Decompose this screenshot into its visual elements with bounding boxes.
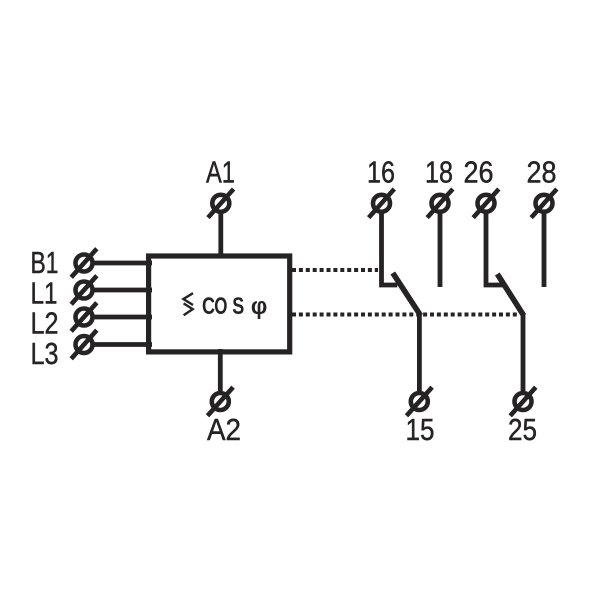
terminal 28 [531, 189, 557, 218]
terminal 16 [369, 189, 395, 218]
wire B1 to box [94, 261, 153, 266]
dotted control link lower [292, 313, 520, 317]
terminal 26 [473, 189, 499, 218]
relay box U1 [149, 256, 290, 352]
terminal A2 [208, 387, 234, 416]
svg-text:φ: φ [251, 293, 267, 320]
terminal L2 [71, 303, 97, 332]
wire 18 open contact [438, 213, 443, 287]
switch lever S1 [393, 273, 421, 316]
terminal L3 [71, 330, 97, 359]
wire L3 to box [94, 342, 153, 347]
svg-text:L3: L3 [31, 336, 59, 371]
svg-text:O: O [214, 293, 227, 320]
wire common 15 [417, 313, 422, 393]
svg-text:15: 15 [406, 412, 435, 447]
wire A2 from box [218, 349, 223, 393]
svg-text:25: 25 [508, 412, 537, 447]
terminal A1 [208, 189, 234, 218]
terminal L1 [71, 276, 97, 305]
svg-text:S: S [232, 293, 244, 320]
switch lever S2 [497, 274, 523, 316]
svg-text:A2: A2 [207, 412, 241, 447]
wire 26 fixed contact [486, 213, 504, 285]
wire 16 fixed contact [382, 213, 398, 285]
wire 28 open contact [542, 213, 547, 287]
wire common 25 [521, 313, 526, 393]
terminal 25 [510, 387, 536, 416]
terminal 18 [427, 189, 453, 218]
wire A1 to box [218, 213, 223, 257]
symbol less-than over greater-than [183, 293, 193, 315]
svg-text:A1: A1 [206, 155, 235, 190]
svg-text:18: 18 [425, 155, 453, 190]
terminal B1 [71, 249, 97, 278]
wire L1 to box [94, 288, 153, 293]
terminal 15 [407, 387, 433, 416]
dotted control link upper [292, 268, 378, 272]
svg-text:26: 26 [464, 155, 494, 190]
wire L2 to box [94, 315, 153, 320]
svg-text:16: 16 [367, 155, 395, 190]
svg-text:C: C [202, 293, 215, 320]
svg-text:28: 28 [527, 155, 557, 190]
